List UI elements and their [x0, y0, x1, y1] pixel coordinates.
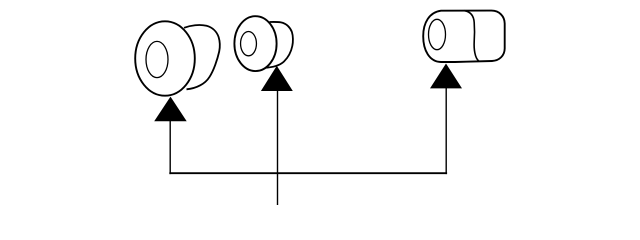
arrowhead 3 [430, 64, 462, 89]
grommet 2 rear flange [264, 22, 293, 68]
grommet 1 hole [146, 41, 168, 77]
leader line horizontal [169, 172, 447, 174]
leader line left vertical [169, 121, 171, 175]
grommet 2 hole [241, 32, 257, 56]
leader line middle vertical [277, 91, 279, 206]
bushing 3 step edge [465, 11, 479, 61]
grommet 2 front face [234, 16, 276, 71]
leader line right vertical [445, 88, 447, 174]
bushing 3 hole [429, 19, 446, 49]
arrowhead 1 [154, 97, 187, 122]
bushing 3 body [423, 11, 505, 62]
grommet 1 front face [135, 21, 195, 95]
arrowhead 2 [261, 66, 293, 91]
grommet 1 rear flange [184, 25, 220, 89]
